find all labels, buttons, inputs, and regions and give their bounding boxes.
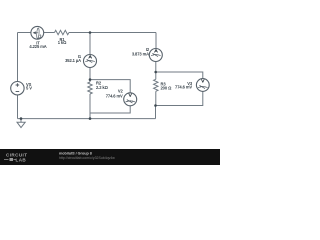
svg-text:774.6 mV: 774.6 mV xyxy=(175,85,192,90)
svg-text:4.225 mA: 4.225 mA xyxy=(29,44,46,49)
svg-text:LAB: LAB xyxy=(16,158,27,163)
svg-text:352.1 µA: 352.1 µA xyxy=(65,58,81,63)
svg-text:3.873 mA: 3.873 mA xyxy=(132,52,149,57)
svg-text:774.6 mV: 774.6 mV xyxy=(106,93,123,98)
svg-text:2.2 kΩ: 2.2 kΩ xyxy=(96,85,109,90)
svg-text:1 kΩ: 1 kΩ xyxy=(58,40,67,45)
svg-text:200 Ω: 200 Ω xyxy=(161,86,173,91)
svg-text:http://circuitlab.com/c/y32Sub: http://circuitlab.com/c/y32Sub4qv4w xyxy=(59,156,115,160)
svg-text:5 V: 5 V xyxy=(26,85,32,90)
